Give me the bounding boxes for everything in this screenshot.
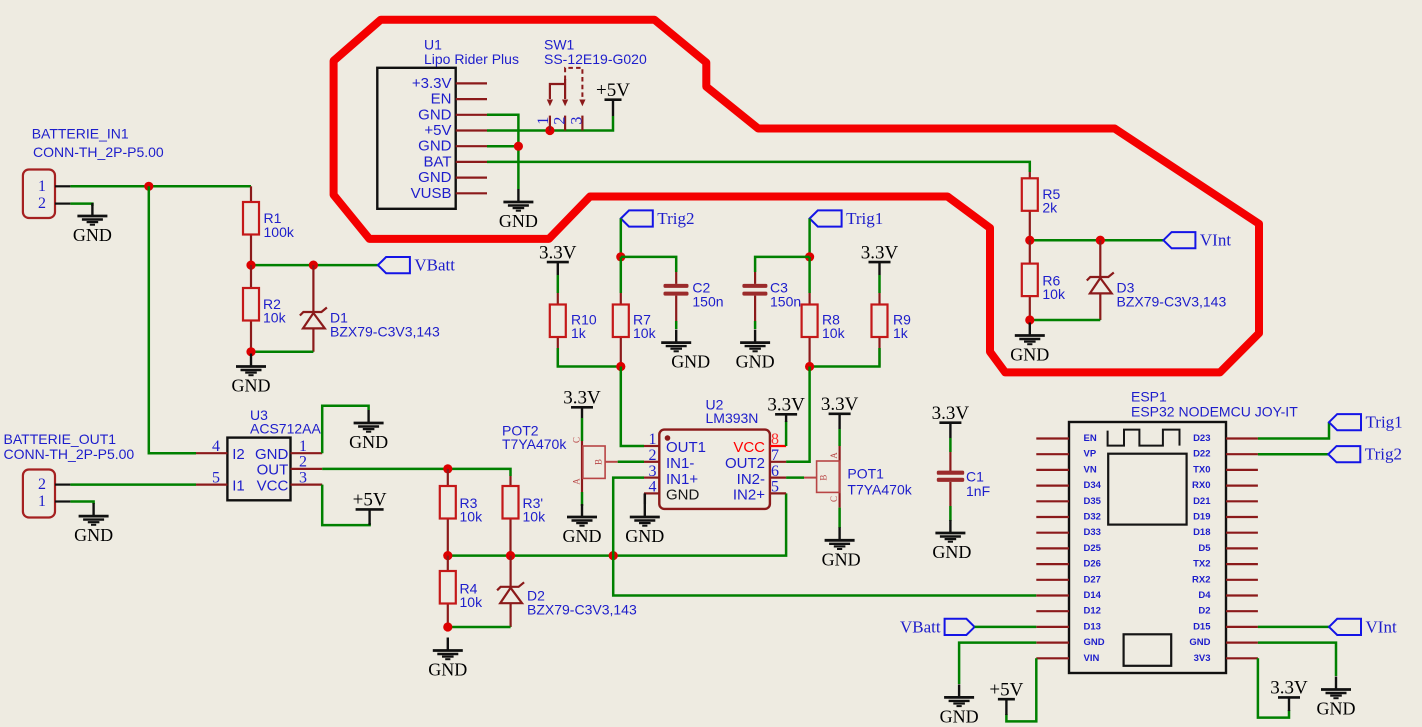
wire mid rail bbox=[448, 493, 786, 555]
svg-text:OUT2: OUT2 bbox=[725, 455, 765, 472]
svg-text:VP: VP bbox=[1084, 449, 1097, 460]
wire 3.3V to R9 bbox=[878, 275, 881, 293]
svg-text:3.3V: 3.3V bbox=[821, 394, 859, 415]
ground at BATTERIE_OUT1 bbox=[74, 503, 113, 545]
svg-text:RX0: RX0 bbox=[1192, 480, 1210, 491]
svg-text:10k: 10k bbox=[633, 325, 657, 341]
zener diode D1 (BZX79-C3V3,143) bbox=[300, 265, 440, 352]
wire R9 bottom to R8 bottom bbox=[810, 348, 880, 367]
wire BATTERIE_OUT1 pin1 to ground bbox=[70, 502, 93, 505]
svg-text:1: 1 bbox=[649, 431, 657, 448]
junction IN1+ tee bbox=[609, 551, 618, 560]
ground at ESP right bbox=[1317, 677, 1356, 719]
svg-text:C: C bbox=[572, 437, 582, 443]
svg-text:3.3V: 3.3V bbox=[932, 403, 970, 424]
wire POT2 bottom to ground bbox=[581, 492, 584, 506]
power 3.3V at POT2 bbox=[563, 388, 601, 419]
svg-text:D33: D33 bbox=[1084, 527, 1101, 538]
wire POT2 wiper to U2 IN1- bbox=[618, 461, 644, 464]
wire BATTERIE_IN1 pin1 to R1 bbox=[70, 185, 251, 188]
junction U1 GND pin5 bbox=[514, 142, 523, 151]
svg-text:GND: GND bbox=[563, 526, 602, 546]
power +5V at ESP VIN bbox=[989, 679, 1023, 715]
wire Trig1 flag down bbox=[808, 219, 811, 257]
wire tee up to U2 IN1+ bbox=[613, 478, 644, 556]
resistor R3' (10k) bbox=[503, 476, 547, 556]
svg-text:D4: D4 bbox=[1198, 590, 1211, 601]
IC U2 LM393N bbox=[644, 396, 786, 509]
wire ESP VIN to +5V bbox=[1006, 658, 1036, 721]
svg-text:GND: GND bbox=[1189, 637, 1210, 648]
wire R2 bottom to D1 bottom bbox=[251, 351, 313, 354]
switch SW1 (SS-12E19-G020) bbox=[535, 37, 647, 131]
svg-text:D2: D2 bbox=[1198, 606, 1210, 617]
svg-text:1k: 1k bbox=[893, 325, 909, 341]
svg-text:POT1: POT1 bbox=[847, 466, 884, 482]
junction R3 top bbox=[443, 464, 452, 473]
wire VBatt flag to ESP D13 bbox=[975, 626, 1037, 629]
junction R8/R9 bottom bbox=[805, 362, 814, 371]
power 3.3V at R9 bbox=[861, 242, 899, 275]
svg-text:3.3V: 3.3V bbox=[767, 395, 805, 416]
svg-text:2: 2 bbox=[299, 454, 307, 471]
wire U3 OUT to R3/R3p bbox=[322, 469, 510, 476]
IC U3 ACS712AA bbox=[196, 407, 322, 500]
svg-text:2: 2 bbox=[38, 195, 46, 212]
wire ESP D23 to Trig1 bbox=[1258, 422, 1329, 438]
ground under C1 bbox=[932, 520, 971, 562]
wire Trig1 to C3 bbox=[755, 257, 810, 272]
net flag Trig1 (mid) bbox=[810, 209, 884, 228]
svg-text:GND: GND bbox=[74, 525, 113, 545]
wire U1 +5V pin4 to switch and +5V bbox=[487, 116, 613, 131]
svg-text:B: B bbox=[594, 459, 604, 465]
svg-text:2: 2 bbox=[38, 476, 46, 493]
svg-text:ESP32 NODEMCU JOY-IT: ESP32 NODEMCU JOY-IT bbox=[1131, 404, 1298, 420]
power +5V at U3 bbox=[353, 490, 387, 525]
svg-text:+5V: +5V bbox=[424, 122, 451, 139]
wire Trig2 down to R7 bbox=[620, 257, 623, 293]
svg-text:D15: D15 bbox=[1193, 621, 1211, 632]
resistor R9 (1k) bbox=[872, 293, 912, 367]
svg-text:10k: 10k bbox=[822, 325, 846, 341]
net flag Trig2 (at ESP) bbox=[1328, 445, 1402, 464]
svg-text:ACS712AA: ACS712AA bbox=[250, 421, 321, 437]
wire BATTERIE_OUT1 pin2 to U3 pin5 bbox=[70, 483, 196, 486]
potentiometer POT1 (T7YA470k) bbox=[804, 446, 913, 508]
power 3.3V at R10 bbox=[539, 242, 577, 275]
wire U1 GND pin3 down bbox=[487, 115, 518, 189]
wire Trig2 to C2 bbox=[621, 257, 676, 272]
junction at battery in pin1 bbox=[144, 182, 153, 191]
svg-text:BZX79-C3V3,143: BZX79-C3V3,143 bbox=[1117, 294, 1227, 310]
junction D3 top bbox=[1096, 236, 1105, 245]
svg-text:GND: GND bbox=[666, 487, 700, 504]
svg-text:D13: D13 bbox=[1084, 621, 1101, 632]
svg-text:T7YA470k: T7YA470k bbox=[502, 436, 567, 452]
power 3.3V at ESP 3V3 bbox=[1270, 678, 1308, 711]
wire U3 VCC to +5V bbox=[322, 485, 369, 525]
svg-text:GND: GND bbox=[418, 138, 452, 155]
svg-text:CONN-TH_2P-P5.00: CONN-TH_2P-P5.00 bbox=[4, 446, 135, 462]
resistor R3 (10k) bbox=[440, 469, 483, 556]
capacitor C3 (150n) bbox=[742, 272, 801, 321]
resistor R6 (10k) bbox=[1022, 240, 1066, 320]
wire BATTERIE_IN1 pin2 to ground bbox=[70, 204, 92, 206]
svg-text:D35: D35 bbox=[1084, 496, 1102, 507]
svg-text:I1: I1 bbox=[232, 477, 245, 494]
svg-text:CONN-TH_2P-P5.00: CONN-TH_2P-P5.00 bbox=[33, 144, 164, 160]
wire Trig2 flag down bbox=[620, 219, 623, 257]
module ESP1 (ESP32 NODEMCU JOY-IT) bbox=[1036, 389, 1298, 674]
svg-text:1nF: 1nF bbox=[966, 483, 990, 499]
svg-text:10k: 10k bbox=[263, 310, 287, 326]
wire Trig1 down to R8 bbox=[808, 257, 811, 293]
resistor R4 (10k) bbox=[440, 556, 483, 627]
svg-text:GND: GND bbox=[499, 211, 538, 231]
junction R4 bottom bbox=[443, 622, 452, 631]
wire U2 VCC pin8 to 3.3V bbox=[785, 421, 788, 446]
svg-text:D34: D34 bbox=[1084, 480, 1102, 491]
svg-text:1: 1 bbox=[299, 438, 307, 455]
wire ESP GND left to ground bbox=[959, 643, 1036, 684]
wire POT1 bottom to ground bbox=[838, 508, 841, 528]
svg-text:3.3V: 3.3V bbox=[861, 242, 899, 263]
power 3.3V at C1 bbox=[932, 403, 970, 438]
svg-text:1: 1 bbox=[38, 178, 46, 195]
connector BATTERIE_IN1 (CONN-TH_2P-P5.00) bbox=[23, 126, 164, 219]
svg-text:2: 2 bbox=[551, 117, 568, 125]
svg-text:VIN: VIN bbox=[1084, 653, 1100, 664]
ground under C3 bbox=[736, 330, 775, 372]
ground under R2 bbox=[232, 354, 271, 396]
svg-text:I2: I2 bbox=[232, 446, 245, 463]
svg-text:BAT: BAT bbox=[423, 153, 451, 170]
net flag VInt (top) bbox=[1163, 231, 1231, 250]
svg-text:D32: D32 bbox=[1084, 512, 1101, 523]
junction SW1 pin1 on +5V wire bbox=[545, 126, 554, 135]
svg-text:7: 7 bbox=[771, 447, 779, 464]
wire U2 GND pin4 to ground bbox=[644, 493, 647, 504]
svg-text:3: 3 bbox=[649, 463, 657, 480]
svg-text:SS-12E19-G020: SS-12E19-G020 bbox=[544, 51, 647, 67]
wire ESP 3V3 to 3.3V bbox=[1258, 658, 1289, 717]
wire ESP GND right to ground bbox=[1258, 643, 1336, 676]
power 3.3V at U2 bbox=[767, 395, 805, 423]
svg-text:D14: D14 bbox=[1084, 590, 1102, 601]
ground at U2 pin4 bbox=[625, 504, 664, 546]
wire U1 GND pin5 bbox=[487, 145, 518, 148]
svg-text:GND: GND bbox=[232, 376, 271, 396]
ground under POT1 bbox=[822, 527, 861, 569]
svg-text:VInt: VInt bbox=[1366, 617, 1397, 636]
svg-text:LM393N: LM393N bbox=[706, 410, 759, 426]
junction R2 bottom bbox=[246, 347, 255, 356]
svg-text:Trig1: Trig1 bbox=[1366, 413, 1403, 432]
ground at ESP left bbox=[940, 684, 979, 726]
svg-text:GND: GND bbox=[932, 542, 971, 562]
power +5V at SW1 bbox=[596, 80, 630, 116]
svg-text:TX2: TX2 bbox=[1193, 559, 1210, 570]
svg-text:VBatt: VBatt bbox=[900, 617, 941, 636]
junction R3' bottom bbox=[506, 551, 515, 560]
svg-text:Lipo Rider Plus: Lipo Rider Plus bbox=[424, 51, 519, 67]
svg-text:OUT: OUT bbox=[257, 462, 289, 479]
resistor R1 (100k) bbox=[243, 186, 295, 265]
svg-text:Trig2: Trig2 bbox=[657, 209, 694, 228]
net flag Trig2 (mid) bbox=[621, 209, 695, 228]
wire C2 to ground bbox=[675, 321, 678, 329]
svg-text:2k: 2k bbox=[1042, 199, 1058, 215]
svg-text:D22: D22 bbox=[1193, 449, 1210, 460]
svg-text:1: 1 bbox=[38, 493, 46, 510]
junction R5/R6 bbox=[1025, 236, 1034, 245]
resistor R7 (10k) bbox=[613, 293, 657, 367]
svg-text:T7YA470k: T7YA470k bbox=[847, 481, 912, 497]
svg-text:GND: GND bbox=[418, 106, 452, 123]
wire R4 bottom to D2 bottom bbox=[448, 626, 511, 629]
svg-text:GND: GND bbox=[1317, 699, 1356, 719]
svg-text:1k: 1k bbox=[571, 325, 587, 341]
svg-text:D12: D12 bbox=[1084, 606, 1101, 617]
svg-text:8: 8 bbox=[771, 431, 779, 448]
svg-text:A: A bbox=[572, 478, 582, 485]
svg-text:4: 4 bbox=[212, 438, 220, 455]
wire 3.3V to C1 bbox=[949, 438, 952, 452]
svg-text:3: 3 bbox=[299, 469, 307, 486]
ground under POT2 bbox=[563, 504, 602, 546]
wire U3 pin1 to ground bbox=[322, 406, 368, 454]
svg-text:ESP1: ESP1 bbox=[1131, 389, 1167, 405]
svg-text:D18: D18 bbox=[1193, 527, 1210, 538]
svg-text:+5V: +5V bbox=[989, 679, 1023, 700]
svg-text:150n: 150n bbox=[770, 293, 801, 309]
IC U1 Lipo Rider Plus bbox=[377, 37, 519, 209]
svg-text:GND: GND bbox=[736, 352, 775, 372]
power 3.3V at POT1 bbox=[821, 394, 859, 429]
svg-text:150n: 150n bbox=[692, 293, 723, 309]
svg-text:GND: GND bbox=[1084, 637, 1105, 648]
net flag VInt (at ESP) bbox=[1329, 617, 1397, 636]
svg-text:VN: VN bbox=[1084, 464, 1097, 475]
wire down to U3 pin4 bbox=[149, 186, 196, 453]
ground at BATTERIE_IN1 bbox=[73, 203, 112, 245]
svg-text:GND: GND bbox=[73, 225, 112, 245]
svg-text:10k: 10k bbox=[460, 594, 484, 610]
wire junction down to U2 pin7 bbox=[786, 367, 810, 462]
svg-text:GND: GND bbox=[1010, 345, 1049, 365]
ground under U1 bbox=[499, 189, 538, 231]
wire R6 bottom to D3 bottom bbox=[1030, 319, 1101, 322]
zener diode D2 (BZX79-C3V3,143) bbox=[497, 556, 637, 627]
boundary outline (red) bbox=[334, 20, 1259, 373]
svg-text:4: 4 bbox=[649, 479, 657, 496]
ground at U3 pin1 bbox=[349, 410, 388, 452]
svg-text:D5: D5 bbox=[1198, 543, 1211, 554]
junction D1 top bbox=[309, 261, 318, 270]
wire 3.3V to POT1 bbox=[838, 429, 841, 446]
net flag VBatt (at ESP) bbox=[900, 617, 975, 636]
svg-text:3.3V: 3.3V bbox=[539, 242, 577, 263]
svg-text:+5V: +5V bbox=[353, 490, 387, 511]
svg-text:GND: GND bbox=[418, 169, 452, 186]
svg-text:1: 1 bbox=[535, 117, 552, 125]
svg-text:IN2-: IN2- bbox=[737, 471, 765, 488]
svg-text:D19: D19 bbox=[1193, 512, 1210, 523]
svg-text:D26: D26 bbox=[1084, 559, 1101, 570]
junction Trig1/C3 bbox=[805, 252, 814, 261]
svg-text:C: C bbox=[829, 496, 839, 502]
svg-text:VBatt: VBatt bbox=[414, 256, 455, 275]
wire R10 bottom to R7 bottom bbox=[558, 348, 621, 367]
wire R5 bottom to VInt bbox=[1030, 239, 1164, 242]
junction R1-R2 bbox=[246, 261, 255, 270]
svg-text:D23: D23 bbox=[1193, 433, 1210, 444]
svg-text:10k: 10k bbox=[1042, 286, 1066, 302]
svg-text:BATTERIE_IN1: BATTERIE_IN1 bbox=[32, 126, 129, 142]
svg-text:D27: D27 bbox=[1084, 574, 1101, 585]
wire junction down to U2 pin1 bbox=[621, 367, 644, 447]
net flag Trig1 (at ESP) bbox=[1329, 413, 1403, 432]
wire 3.3V to R10 bbox=[557, 275, 560, 293]
svg-text:GND: GND bbox=[625, 526, 664, 546]
svg-text:GND: GND bbox=[255, 446, 289, 463]
svg-text:IN1+: IN1+ bbox=[666, 471, 698, 488]
svg-text:TX0: TX0 bbox=[1193, 464, 1210, 475]
svg-text:10k: 10k bbox=[523, 509, 547, 525]
svg-text:10k: 10k bbox=[460, 509, 484, 525]
ground under C2 bbox=[661, 330, 710, 372]
zener diode D3 (BZX79-C3V3,143) bbox=[1087, 240, 1227, 320]
ground under R4 bbox=[428, 638, 467, 680]
svg-text:BATTERIE_OUT1: BATTERIE_OUT1 bbox=[4, 431, 117, 447]
svg-text:OUT1: OUT1 bbox=[666, 439, 706, 456]
wire tee down to ESP D14 bbox=[613, 556, 1036, 596]
svg-text:3.3V: 3.3V bbox=[563, 388, 601, 409]
svg-text:RX2: RX2 bbox=[1192, 574, 1210, 585]
svg-text:Trig2: Trig2 bbox=[1365, 445, 1402, 464]
resistor R2 (10k) bbox=[243, 265, 287, 352]
svg-text:6: 6 bbox=[771, 463, 779, 480]
svg-text:3: 3 bbox=[569, 117, 586, 125]
wire 3.3V to POT2 bbox=[581, 418, 584, 441]
wire C1 to ground bbox=[949, 506, 952, 521]
svg-text:5: 5 bbox=[212, 469, 220, 486]
svg-text:A: A bbox=[829, 452, 839, 459]
svg-text:Trig1: Trig1 bbox=[846, 209, 883, 228]
svg-text:EN: EN bbox=[431, 91, 452, 108]
svg-text:2: 2 bbox=[649, 447, 657, 464]
svg-text:+3.3V: +3.3V bbox=[412, 75, 452, 92]
ground under R6 bbox=[1010, 323, 1049, 365]
svg-text:BZX79-C3V3,143: BZX79-C3V3,143 bbox=[330, 324, 440, 340]
svg-text:GND: GND bbox=[940, 706, 979, 726]
svg-text:EN: EN bbox=[1084, 433, 1097, 444]
wire R1/R2/D1 to VBatt flag bbox=[251, 264, 378, 267]
connector BATTERIE_OUT1 (CONN-TH_2P-P5.00) bbox=[4, 431, 135, 518]
junction R7/R10 bottom bbox=[616, 362, 625, 371]
svg-text:GND: GND bbox=[349, 432, 388, 452]
svg-text:VInt: VInt bbox=[1200, 231, 1231, 250]
junction Trig2/C2 bbox=[616, 252, 625, 261]
svg-text:BZX79-C3V3,143: BZX79-C3V3,143 bbox=[527, 602, 637, 618]
svg-text:VUSB: VUSB bbox=[411, 185, 452, 202]
svg-text:VCC: VCC bbox=[733, 439, 765, 456]
wire C3 to ground bbox=[754, 321, 757, 329]
svg-text:GND: GND bbox=[428, 660, 467, 680]
svg-text:B: B bbox=[819, 475, 829, 481]
svg-text:100k: 100k bbox=[264, 224, 295, 240]
svg-text:D21: D21 bbox=[1193, 496, 1211, 507]
capacitor C1 (1nF) bbox=[937, 452, 990, 506]
capacitor C2 (150n) bbox=[664, 272, 724, 321]
svg-text:IN1-: IN1- bbox=[666, 455, 694, 472]
resistor R5 (2k) bbox=[1022, 172, 1061, 240]
junction R6 bottom bbox=[1025, 315, 1034, 324]
svg-text:D25: D25 bbox=[1084, 543, 1102, 554]
potentiometer POT2 (T7YA470k) bbox=[502, 423, 618, 493]
resistor R10 (1k) bbox=[550, 293, 597, 367]
junction R3 bottom bbox=[443, 551, 452, 560]
resistor R8 (10k) bbox=[802, 293, 846, 367]
svg-text:3.3V: 3.3V bbox=[1270, 678, 1308, 699]
svg-text:5: 5 bbox=[771, 479, 779, 496]
svg-text:GND: GND bbox=[671, 352, 710, 372]
wire U1 BAT to R5 bbox=[487, 162, 1030, 172]
svg-text:+5V: +5V bbox=[596, 80, 630, 101]
wire ESP D15 to VInt bbox=[1258, 626, 1329, 629]
svg-text:IN2+: IN2+ bbox=[733, 487, 765, 504]
svg-text:GND: GND bbox=[822, 549, 861, 569]
wire ESP D22 to Trig2 bbox=[1258, 453, 1328, 456]
wire U2 IN2- to POT1 wiper bbox=[786, 476, 804, 479]
net flag VBatt (left) bbox=[378, 256, 455, 275]
svg-text:3V3: 3V3 bbox=[1194, 653, 1211, 664]
svg-text:VCC: VCC bbox=[257, 477, 289, 494]
